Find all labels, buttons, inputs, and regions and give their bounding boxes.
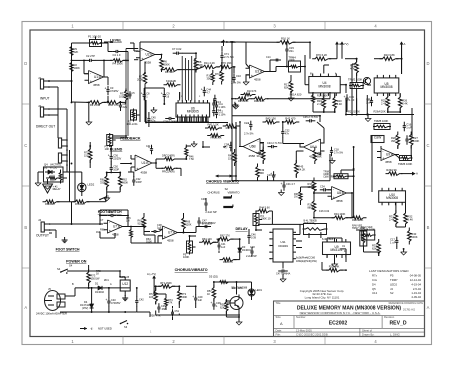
resistor R5 xyxy=(162,68,181,72)
capacitor C42 xyxy=(136,297,138,301)
svg-text:CD4049: CD4049 xyxy=(278,244,288,248)
resistor RT1 xyxy=(158,285,175,289)
svg-text:R14 33K: R14 33K xyxy=(254,99,265,103)
svg-text:200K: 200K xyxy=(164,62,170,66)
svg-text:100K: 100K xyxy=(183,255,189,259)
trimmer TRM2 xyxy=(350,83,363,89)
trimmer TRM6 xyxy=(400,156,412,161)
svg-text:100K: 100K xyxy=(289,58,295,62)
resistor R42 xyxy=(282,120,299,124)
pot P5 xyxy=(187,241,193,253)
BR: r35 connect xyxy=(322,269,329,271)
resistor R59 xyxy=(225,299,228,314)
svg-text:22/25V: 22/25V xyxy=(113,156,121,160)
capacitor C9 xyxy=(163,91,165,95)
svg-text:47K: 47K xyxy=(168,302,173,305)
svg-text:D1: D1 xyxy=(95,282,99,286)
svg-text:1 uF: 1 uF xyxy=(406,125,412,129)
svg-text:2.4K: 2.4K xyxy=(408,217,414,221)
svg-text:47/25V: 47/25V xyxy=(110,89,119,93)
capacitor C47c xyxy=(198,217,200,221)
pot P4 delay xyxy=(253,214,259,226)
title block frame xyxy=(274,301,425,337)
svg-text:C31 4.7: C31 4.7 xyxy=(286,182,296,186)
IC U5 MN3008 xyxy=(374,78,399,93)
svg-text:R23 6.8K: R23 6.8K xyxy=(384,53,395,57)
capacitor C44b xyxy=(203,87,205,91)
svg-text:A: A xyxy=(280,321,283,326)
svg-text:1 10%: 1 10% xyxy=(219,113,227,116)
wire lfo2 xyxy=(165,294,167,297)
svg-text:R24 100K: R24 100K xyxy=(352,218,364,222)
op-amp U8:B xyxy=(332,187,347,200)
trimmer TRM1 xyxy=(334,174,348,179)
svg-text:910K: 910K xyxy=(146,240,152,244)
svg-text:120K: 120K xyxy=(186,222,192,226)
svg-text:D: D xyxy=(427,61,430,66)
jack J4 output xyxy=(41,222,44,232)
U7B feedback loop xyxy=(99,210,101,216)
svg-text:R69: R69 xyxy=(232,287,237,290)
capacitor C41b xyxy=(151,145,153,149)
feedback bus pair xyxy=(125,49,127,91)
BR: u9 pins up xyxy=(326,238,328,242)
resistor R23 xyxy=(380,57,399,61)
left margin wires xyxy=(49,108,67,110)
capacitor C45b xyxy=(158,303,160,307)
svg-text:4-09-02: 4-09-02 xyxy=(411,295,421,299)
capacitor C41 xyxy=(218,242,220,245)
svg-text:IN: IN xyxy=(310,74,313,76)
svg-text:U1:A: U1:A xyxy=(94,75,102,79)
capacitor C46b xyxy=(205,199,207,203)
svg-text:File:: File: xyxy=(276,332,281,336)
wires right xyxy=(380,146,382,149)
svg-text:MN3008: MN3008 xyxy=(319,84,331,88)
ground xyxy=(88,119,90,122)
svg-text:9100: 9100 xyxy=(138,221,144,225)
wires noise gate xyxy=(49,223,72,225)
resistor R3 xyxy=(124,88,127,103)
output jack second contact xyxy=(49,232,52,234)
arrow right xyxy=(412,172,415,175)
resistor R46b xyxy=(185,145,188,160)
svg-text:39K: 39K xyxy=(391,139,396,143)
svg-text:B: B xyxy=(427,225,430,230)
svg-text:150/1W: 150/1W xyxy=(91,276,100,280)
wires u8b xyxy=(313,180,315,181)
svg-text:R16 1K: R16 1K xyxy=(281,37,290,41)
svg-text:C41 1: C41 1 xyxy=(146,145,153,148)
bbd top left pins xyxy=(179,92,181,101)
IC U4 MN3008 xyxy=(309,77,340,93)
svg-text:R40 1.5K: R40 1.5K xyxy=(211,136,222,140)
capacitor C15b2 xyxy=(371,97,373,101)
resistor R57 xyxy=(212,285,216,302)
svg-text:4558: 4558 xyxy=(145,61,152,65)
wire right vertical A bus xyxy=(401,44,403,74)
svg-text:R67 27K: R67 27K xyxy=(220,234,230,238)
resistor R61 xyxy=(142,214,146,231)
legend NOT USED xyxy=(80,328,86,330)
IC U12 regulator xyxy=(120,280,130,291)
capacitor C45d xyxy=(148,115,150,119)
svg-text:Drawn By:: Drawn By: xyxy=(362,332,375,336)
wires lfo xyxy=(153,282,155,286)
svg-text:C34: C34 xyxy=(320,184,325,188)
svg-text:39K: 39K xyxy=(260,171,265,175)
ground xyxy=(403,249,405,252)
svg-text:100K: 100K xyxy=(181,295,187,299)
switch S3 xyxy=(120,323,122,325)
svg-text:R43 15K: R43 15K xyxy=(266,117,277,121)
wires chorus mid xyxy=(205,198,207,201)
more top wires xyxy=(104,41,113,43)
wire xyxy=(309,42,311,58)
svg-text:Long Island City, NY 11101: Long Island City, NY 11101 xyxy=(305,296,340,300)
Q5 emitter chain xyxy=(226,316,239,318)
resistor R76 xyxy=(130,227,133,241)
resistor R72 xyxy=(220,68,224,85)
wires filter xyxy=(240,146,243,148)
svg-text:C: C xyxy=(427,143,430,148)
svg-text:39K: 39K xyxy=(317,154,322,158)
wires 4049 xyxy=(282,262,284,269)
svg-text:22n: 22n xyxy=(123,105,128,109)
diode D3 xyxy=(239,245,241,255)
power arrow A3 xyxy=(153,276,155,282)
capacitor C26 xyxy=(230,142,232,146)
svg-text:R21/100K: R21/100K xyxy=(348,109,360,113)
capacitor C38 xyxy=(151,231,154,233)
svg-text:R70 16K: R70 16K xyxy=(221,61,232,65)
R38 column xyxy=(299,189,302,204)
svg-text:C: C xyxy=(24,143,27,148)
resistor R60 xyxy=(105,173,109,190)
pot P1 level xyxy=(90,40,102,47)
svg-text:J2: J2 xyxy=(38,104,41,108)
pot P2 blend xyxy=(131,110,137,120)
svg-text:R44 5.6K: R44 5.6K xyxy=(259,206,270,210)
trimmer TRM8 xyxy=(362,230,375,240)
svg-text:(15V): (15V) xyxy=(82,306,88,310)
wire pwr taps xyxy=(89,270,120,272)
op-amp U2:B xyxy=(140,48,155,61)
svg-text:U6B: U6B xyxy=(250,145,256,149)
svg-text:1uF: 1uF xyxy=(157,226,162,230)
pot P3 feedback xyxy=(107,135,113,146)
capacitor C3 xyxy=(107,86,109,90)
svg-text:1K: 1K xyxy=(96,272,99,276)
svg-text:47n: 47n xyxy=(285,131,290,135)
wires top-left xyxy=(104,76,109,78)
svg-text:4558: 4558 xyxy=(167,239,174,243)
capacitor C40 xyxy=(108,297,110,301)
resistor R35 xyxy=(326,268,343,272)
op-amp U3:A xyxy=(250,65,265,78)
wire filter bus xyxy=(232,98,236,100)
wires power on xyxy=(88,265,90,272)
capacitor C8 xyxy=(143,91,145,95)
svg-text:S4: S4 xyxy=(57,267,61,271)
wire led2 up xyxy=(81,172,83,179)
svg-text:A: A xyxy=(416,172,418,176)
resistor R69 xyxy=(217,281,232,284)
svg-text:MN3008: MN3008 xyxy=(381,85,393,89)
resistor R46 xyxy=(313,147,317,164)
filter bottom bus xyxy=(231,130,233,181)
svg-text:R1 2.2M: R1 2.2M xyxy=(90,103,100,107)
svg-text:C33 4.7: C33 4.7 xyxy=(267,173,277,177)
svg-text:2.7n 5%: 2.7n 5% xyxy=(231,81,241,85)
svg-text:39.2K: 39.2K xyxy=(257,154,264,158)
resistor RT3 xyxy=(178,288,182,305)
LED2 xyxy=(78,183,86,191)
resistor R44 xyxy=(261,147,265,164)
svg-text:Number: Number xyxy=(296,315,306,319)
capacitor C47b xyxy=(278,270,282,272)
resistor R14 xyxy=(252,97,269,101)
resistor R67 xyxy=(217,237,234,241)
jack J1 xyxy=(40,79,43,89)
svg-text:A: A xyxy=(404,42,406,46)
resistor R62 xyxy=(118,173,122,190)
svg-text:+: + xyxy=(210,301,212,305)
wires blend to filter xyxy=(133,172,135,177)
op-amp U7:A xyxy=(163,226,178,239)
svg-text:U6:A: U6:A xyxy=(310,145,318,149)
resistor R70 xyxy=(217,65,236,69)
svg-text:DIRECT OUT: DIRECT OUT xyxy=(36,125,55,129)
svg-text:10K: 10K xyxy=(149,295,154,299)
svg-text:2.2uF NP: 2.2uF NP xyxy=(246,254,257,258)
resistor R56 xyxy=(104,101,123,105)
sheet outer frame xyxy=(22,22,432,345)
svg-text:C45 2.7n 5%: C45 2.7n 5% xyxy=(303,115,318,119)
jack J3 extra contacts xyxy=(66,145,68,147)
resistor R6 xyxy=(160,55,164,72)
svg-text:Revision: Revision xyxy=(384,315,395,319)
resistor R15 xyxy=(235,97,252,101)
svg-text:100K: 100K xyxy=(74,66,80,70)
svg-text:1 uF: 1 uF xyxy=(366,101,371,104)
svg-text:+: + xyxy=(108,153,110,157)
vactrol Q4 xyxy=(44,167,64,182)
svg-text:U11: U11 xyxy=(280,240,286,244)
svg-text:2.4K: 2.4K xyxy=(337,102,343,106)
resistor R17 xyxy=(289,78,293,95)
svg-text:1uF: 1uF xyxy=(221,246,226,249)
adapter inner details xyxy=(45,300,49,302)
svg-text:C48: C48 xyxy=(250,245,255,249)
power arrow A2 xyxy=(401,42,403,48)
capacitor C32b xyxy=(133,176,135,180)
svg-text:C44: C44 xyxy=(107,210,112,214)
svg-text:1M: 1M xyxy=(96,230,100,234)
svg-text:100P: 100P xyxy=(113,167,119,171)
svg-text:L. DING: L. DING xyxy=(390,332,400,336)
svg-text:2.4K: 2.4K xyxy=(402,101,408,105)
op-amp U9 xyxy=(381,149,395,161)
svg-text:TRIM4 5K: TRIM4 5K xyxy=(304,222,315,225)
resistor R50 xyxy=(162,157,178,160)
resistor R4 xyxy=(110,59,126,62)
resistor R8 xyxy=(194,56,198,73)
svg-text:P5: P5 xyxy=(390,274,394,278)
wire right ground bus xyxy=(346,114,414,116)
svg-text:1M: 1M xyxy=(126,219,130,223)
svg-text:12-14-04: 12-14-04 xyxy=(410,278,422,282)
svg-text:B: B xyxy=(24,225,27,230)
svg-text:NOT USED: NOT USED xyxy=(98,327,112,331)
capacitor C16 xyxy=(403,122,405,126)
svg-text:U7:A: U7:A xyxy=(168,231,176,235)
svg-text:+: + xyxy=(105,86,107,90)
svg-text:4-19-04: 4-19-04 xyxy=(411,283,421,287)
capacitor C13b xyxy=(346,94,348,98)
svg-text:S2: S2 xyxy=(390,291,394,295)
svg-text:470/35V: 470/35V xyxy=(111,301,121,305)
svg-text:TRM7: TRM7 xyxy=(390,278,398,282)
svg-text:POWER ON: POWER ON xyxy=(66,260,87,264)
op-amp U6:A xyxy=(304,139,321,155)
svg-text:R47 1.5M: R47 1.5M xyxy=(226,126,237,130)
svg-text:1 uF: 1 uF xyxy=(390,240,396,244)
svg-text:330K: 330K xyxy=(100,180,106,184)
resistor R26 xyxy=(398,94,402,111)
svg-text:100K: 100K xyxy=(413,139,419,143)
svg-text:62K: 62K xyxy=(372,246,377,250)
capacitor C44 xyxy=(107,215,111,217)
resistor R43 xyxy=(263,120,280,124)
wire bbd bottom bus xyxy=(177,117,179,123)
caps C13 C14 xyxy=(213,99,215,103)
capacitor C2 xyxy=(86,59,90,61)
svg-text:U9:A: U9:A xyxy=(386,153,394,157)
svg-text:+: + xyxy=(161,91,163,95)
capacitor C46c xyxy=(248,232,250,236)
wires u4 bottom xyxy=(312,93,314,95)
svg-text:NEW SENSOR CORPORATION N.Y.C.: NEW SENSOR CORPORATION N.Y.C. - NEW YORK… xyxy=(300,311,381,315)
svg-text:33n: 33n xyxy=(289,49,294,53)
svg-text:100P: 100P xyxy=(136,180,142,184)
resistor R34b xyxy=(332,216,349,220)
resistor R30 xyxy=(408,228,412,245)
capacitor C48 xyxy=(251,247,253,251)
right low bus xyxy=(340,248,346,250)
resistor R12 array xyxy=(164,83,181,87)
svg-text:U3:A: U3:A xyxy=(255,70,263,74)
power arrow A xyxy=(336,42,338,48)
resistor RT2 xyxy=(154,288,158,305)
svg-text:FOOT SWITCH: FOOT SWITCH xyxy=(56,248,80,252)
svg-text:4558: 4558 xyxy=(385,160,392,164)
svg-text:U12: U12 xyxy=(372,291,378,295)
capacitor C51 xyxy=(172,309,174,312)
opamp U2A out wire xyxy=(265,71,271,73)
wires u5 xyxy=(401,48,403,59)
svg-text:VIBRATO: VIBRATO xyxy=(228,191,241,195)
op-amp U1:B xyxy=(135,155,152,171)
svg-text:R56: R56 xyxy=(108,103,113,107)
svg-text:EC2002: EC2002 xyxy=(329,320,348,326)
svg-text:62K: 62K xyxy=(220,305,225,309)
ground xyxy=(64,237,66,240)
svg-text:D: D xyxy=(24,61,27,66)
ground big vactrol xyxy=(43,184,53,193)
svg-text:R74 220: R74 220 xyxy=(75,202,85,206)
svg-text:2.4K: 2.4K xyxy=(381,101,387,105)
svg-text:R11 2.2K: R11 2.2K xyxy=(204,61,215,65)
svg-text:REV_D: REV_D xyxy=(389,320,406,326)
op-amp U1:A xyxy=(89,71,104,84)
svg-text:U12: U12 xyxy=(122,282,128,286)
wires br xyxy=(314,223,316,224)
wires u4 xyxy=(356,59,358,62)
resistor R68 xyxy=(220,258,237,262)
power arrow B+/DEL xyxy=(223,40,225,46)
resistor R25 xyxy=(386,94,390,111)
svg-text:K104AB: K104AB xyxy=(166,79,176,83)
svg-text:C7 0.02: C7 0.02 xyxy=(172,47,182,51)
svg-text:U2:B: U2:B xyxy=(146,53,153,57)
svg-text:D5 (D2): D5 (D2) xyxy=(209,275,218,279)
wires bbd verticals xyxy=(181,56,183,101)
ground bus join xyxy=(137,311,150,313)
resistor R52 xyxy=(162,167,178,170)
capacitor C6 xyxy=(120,101,122,105)
wire s1 to u7 xyxy=(105,198,107,202)
svg-text:RELAY: RELAY xyxy=(53,187,61,191)
svg-text:C24: C24 xyxy=(244,121,249,125)
svg-text:2.4K: 2.4K xyxy=(389,217,395,221)
jack J2 xyxy=(40,107,43,117)
svg-text:2.4K: 2.4K xyxy=(317,102,323,106)
svg-text:U8:B: U8:B xyxy=(337,191,344,195)
capacitor C7 xyxy=(173,52,177,54)
svg-text:13-May-2005: 13-May-2005 xyxy=(296,328,312,332)
svg-text:47K: 47K xyxy=(114,103,119,107)
svg-text:R15 33K: R15 33K xyxy=(238,99,249,103)
TR u4 area wires xyxy=(305,84,309,86)
capacitor C45 xyxy=(306,120,310,122)
svg-text:R5 560: R5 560 xyxy=(165,70,174,74)
capacitor C17 xyxy=(396,237,398,241)
capacitor C11 xyxy=(216,101,218,105)
resistor R2 xyxy=(70,60,73,75)
wires blend xyxy=(57,131,59,138)
svg-text:D2: D2 xyxy=(44,166,48,170)
wire right bus xyxy=(341,46,343,59)
svg-text:2.7n 5%: 2.7n 5% xyxy=(334,151,344,154)
svg-text:180k(E)(Pin#)(CW): 180k(E)(Pin#)(CW) xyxy=(296,260,317,263)
resistor R47 xyxy=(223,124,240,128)
resistor R11 xyxy=(200,65,219,69)
svg-text:30K: 30K xyxy=(207,76,212,80)
resistor R66 xyxy=(182,215,186,232)
svg-text:1 10%: 1 10% xyxy=(219,106,227,109)
svg-text:4558: 4558 xyxy=(93,83,100,87)
svg-text:100K: 100K xyxy=(322,95,328,98)
wires power xyxy=(65,295,75,297)
capacitor C10 xyxy=(233,74,235,78)
svg-text:24.2K: 24.2K xyxy=(298,167,305,171)
svg-text:4558: 4558 xyxy=(254,78,261,82)
svg-text:TRM2 100K: TRM2 100K xyxy=(348,78,362,82)
svg-text:C37 0.47/50V: C37 0.47/50V xyxy=(200,221,216,225)
svg-text:A (+7V): A (+7V) xyxy=(147,272,156,276)
resistor R45 xyxy=(295,160,299,177)
